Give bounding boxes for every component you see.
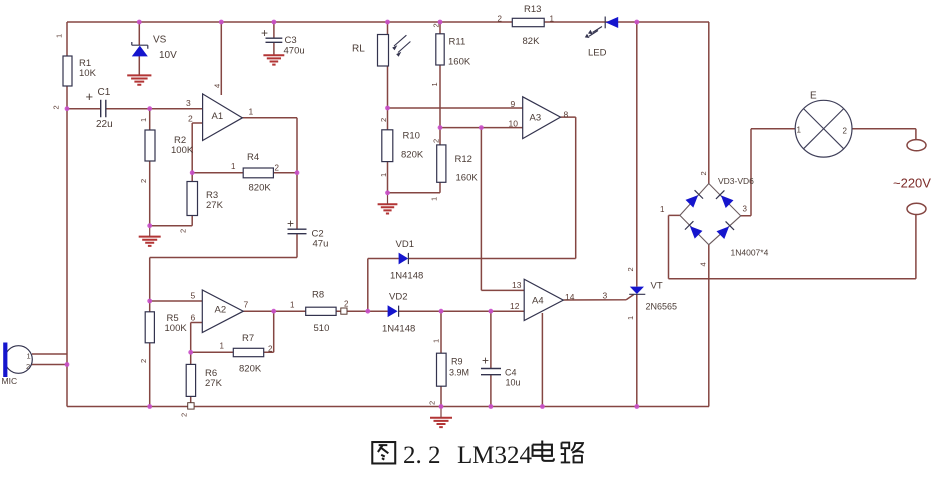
svg-text:2: 2 [52, 105, 61, 109]
svg-text:1: 1 [797, 126, 802, 135]
svg-text:1: 1 [55, 34, 64, 38]
svg-text:1: 1 [660, 205, 665, 214]
svg-text:2: 2 [428, 401, 437, 405]
svg-text:7: 7 [244, 300, 249, 310]
svg-text:2: 2 [379, 118, 388, 122]
svg-text:2: 2 [275, 164, 280, 173]
svg-text:27K: 27K [206, 200, 224, 211]
svg-text:R13: R13 [524, 4, 541, 15]
svg-text:10V: 10V [159, 50, 177, 61]
svg-text:820K: 820K [401, 150, 424, 161]
svg-text:+: + [287, 217, 294, 231]
svg-text:+: + [482, 354, 489, 368]
svg-text:2: 2 [843, 127, 848, 136]
svg-text:1: 1 [27, 352, 31, 361]
svg-text:RL: RL [352, 44, 365, 55]
svg-text:2: 2 [626, 267, 635, 271]
svg-text:5: 5 [191, 291, 196, 301]
svg-text:C3: C3 [285, 35, 297, 46]
svg-text:1N4148: 1N4148 [390, 271, 423, 282]
svg-text:12: 12 [510, 301, 520, 311]
svg-text:2: 2 [139, 359, 148, 363]
svg-text:1: 1 [379, 173, 388, 177]
svg-text:1: 1 [231, 162, 236, 171]
svg-text:3: 3 [186, 98, 191, 108]
svg-text:4: 4 [699, 262, 708, 266]
svg-text:A3: A3 [530, 113, 542, 124]
svg-text:2: 2 [139, 179, 148, 183]
svg-text:R12: R12 [455, 154, 472, 165]
svg-text:1: 1 [432, 339, 441, 343]
svg-text:1N4007*4: 1N4007*4 [731, 248, 769, 258]
svg-text:22u: 22u [96, 119, 113, 130]
svg-text:R9: R9 [451, 357, 463, 367]
svg-text:C4: C4 [505, 368, 517, 378]
svg-text:10K: 10K [79, 68, 97, 79]
svg-text:R7: R7 [242, 333, 254, 344]
svg-text:100K: 100K [165, 323, 188, 334]
svg-text:2. 2: 2. 2 [403, 442, 441, 469]
svg-text:VD3-VD6: VD3-VD6 [718, 176, 754, 186]
svg-text:13: 13 [512, 280, 522, 290]
svg-text:3: 3 [743, 205, 748, 214]
svg-text:LM324: LM324 [457, 442, 533, 469]
svg-text:160K: 160K [448, 57, 471, 68]
svg-text:2: 2 [432, 23, 441, 27]
svg-text:3: 3 [603, 291, 608, 301]
svg-text:8: 8 [564, 110, 569, 120]
svg-text:MIC: MIC [2, 376, 18, 386]
svg-text:VS: VS [153, 35, 167, 46]
svg-text:2: 2 [432, 139, 441, 143]
svg-text:+: + [86, 89, 94, 104]
svg-text:1: 1 [139, 118, 148, 122]
svg-text:510: 510 [314, 323, 330, 334]
svg-text:R11: R11 [449, 37, 466, 48]
svg-text:R4: R4 [247, 152, 259, 163]
svg-text:100K: 100K [171, 145, 194, 156]
svg-text:2: 2 [344, 300, 349, 309]
svg-text:1: 1 [430, 82, 439, 86]
svg-text:4: 4 [213, 84, 222, 88]
svg-text:2: 2 [179, 229, 188, 233]
svg-text:VD1: VD1 [396, 239, 414, 250]
svg-text:820K: 820K [249, 183, 272, 194]
svg-text:LED: LED [588, 48, 607, 59]
svg-text:1: 1 [626, 316, 635, 320]
svg-text:1: 1 [290, 301, 295, 310]
svg-text:3.9M: 3.9M [449, 368, 469, 378]
svg-text:2: 2 [268, 345, 273, 354]
svg-text:82K: 82K [523, 36, 541, 47]
svg-text:10u: 10u [506, 378, 521, 388]
svg-text:470u: 470u [284, 46, 305, 57]
svg-text:+: + [261, 26, 268, 40]
svg-text:1: 1 [220, 342, 225, 351]
svg-text:2: 2 [188, 114, 193, 124]
svg-text:1N4148: 1N4148 [382, 324, 415, 335]
svg-text:2: 2 [498, 15, 503, 24]
svg-text:1: 1 [550, 15, 555, 24]
svg-text:R8: R8 [312, 290, 324, 301]
svg-text:14: 14 [565, 292, 575, 302]
svg-text:VD2: VD2 [389, 292, 407, 303]
svg-text:VT: VT [651, 281, 663, 292]
svg-text:6: 6 [191, 313, 196, 323]
svg-text:2: 2 [26, 362, 30, 371]
svg-text:R10: R10 [403, 131, 420, 142]
svg-text:2: 2 [180, 413, 189, 417]
svg-text:2N6565: 2N6565 [646, 302, 678, 312]
svg-text:~220V: ~220V [893, 176, 931, 191]
svg-text:1: 1 [249, 107, 254, 117]
svg-text:A4: A4 [532, 296, 544, 307]
svg-text:A2: A2 [215, 305, 227, 316]
svg-text:160K: 160K [456, 173, 479, 184]
svg-text:2: 2 [699, 171, 708, 175]
svg-text:E: E [810, 91, 817, 102]
svg-text:1: 1 [430, 197, 439, 201]
svg-text:820K: 820K [239, 364, 262, 375]
svg-text:10: 10 [509, 118, 519, 128]
svg-text:C1: C1 [98, 87, 111, 98]
svg-text:47u: 47u [313, 239, 329, 250]
svg-text:9: 9 [511, 99, 516, 109]
svg-text:27K: 27K [205, 378, 223, 389]
svg-text:A1: A1 [212, 111, 224, 122]
